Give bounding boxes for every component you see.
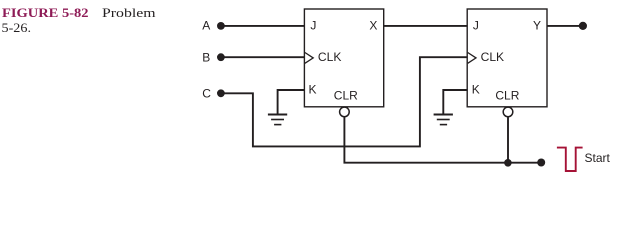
svg-text:Start: Start — [585, 151, 611, 165]
svg-text:CLK: CLK — [481, 50, 505, 64]
wire U2 CLR bubble down to Start line — [507, 117, 509, 163]
svg-text:CLR: CLR — [334, 88, 358, 102]
U1 clock edge triangle — [305, 53, 313, 64]
svg-text:CLR: CLR — [495, 88, 519, 102]
terminal dot node B — [217, 53, 225, 61]
flip-flop U2 body — [467, 9, 547, 107]
ground symbol at U2 K — [434, 115, 453, 125]
ground symbol at U1 K — [268, 115, 287, 125]
U1 CLR active-low bubble — [340, 107, 350, 117]
terminal dot node A — [217, 22, 225, 30]
figure caption FIGURE 5-82 Problem 5-26. — [2, 5, 156, 35]
U2 clock edge triangle — [468, 53, 476, 64]
wire A to U1 pin J — [221, 25, 305, 27]
svg-text:C: C — [202, 86, 211, 100]
wire U1 K to ground — [278, 90, 305, 114]
wire U1 CLR bubble down and along to Start — [344, 117, 541, 163]
svg-text:CLK: CLK — [318, 50, 342, 64]
flip-flop U1 body — [304, 9, 383, 107]
svg-text:K: K — [472, 83, 480, 97]
terminal dot node Y — [579, 22, 587, 30]
terminal dot node C — [217, 89, 225, 97]
svg-text:5-26.: 5-26. — [2, 20, 32, 35]
Start pulse waveform (active-low pulse) — [557, 148, 583, 171]
svg-text:X: X — [369, 19, 377, 33]
wire U1 X output to U2 pin J — [384, 25, 468, 27]
wire C down, across bottom, up to U2 pin CLK — [221, 57, 468, 146]
terminal dot node Start — [537, 159, 545, 167]
U2 CLR active-low bubble — [503, 107, 513, 117]
svg-text:J: J — [473, 19, 479, 33]
wire B to U1 pin CLK — [221, 56, 305, 58]
svg-text:A: A — [202, 19, 210, 33]
svg-text:Y: Y — [533, 19, 541, 33]
wire U2 K to ground — [443, 90, 467, 114]
junction dot at U2 CLR / Start line — [504, 159, 512, 167]
wire U2 Y output — [547, 25, 583, 27]
svg-text:B: B — [202, 50, 210, 64]
svg-text:FIGURE 5-82: FIGURE 5-82 — [2, 5, 89, 20]
svg-text:Problem: Problem — [102, 5, 156, 20]
svg-text:J: J — [310, 19, 316, 33]
svg-text:K: K — [309, 83, 317, 97]
